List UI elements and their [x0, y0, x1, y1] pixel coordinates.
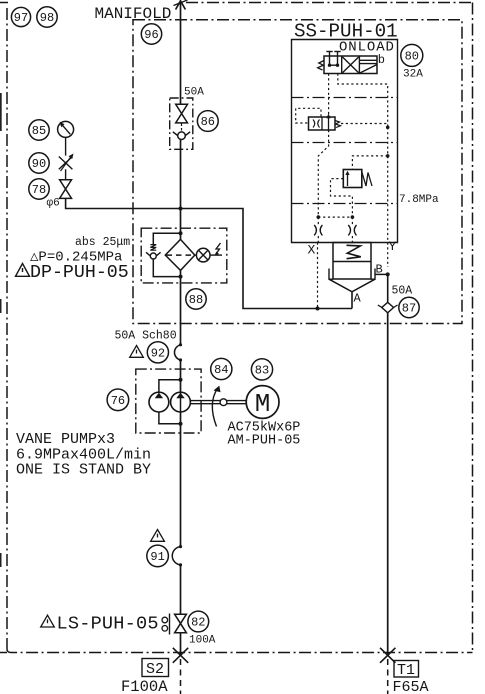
- flexible joint 91: [172, 545, 182, 567]
- valve U80 solenoid b: [359, 60, 377, 73]
- balloon 91: [147, 545, 169, 567]
- pilot relief drain loop: [331, 179, 353, 218]
- svg-text:abs 25μm: abs 25μm: [75, 236, 130, 249]
- valve unit 86 enclosure: [170, 98, 193, 149]
- svg-text:MANIFOLD: MANIFOLD: [95, 5, 172, 23]
- scan edge marks: [0, 93, 2, 567]
- clogging indicator: [195, 243, 222, 262]
- svg-text:82: 82: [191, 616, 205, 630]
- wire: needle valve to valve 78: [65, 169, 67, 180]
- gate valve 82: [175, 614, 187, 633]
- svg-text:97: 97: [14, 11, 28, 25]
- pump 2: [171, 392, 191, 412]
- wire: gauge to needle valve: [65, 137, 67, 155]
- svg-text:98: 98: [40, 11, 54, 25]
- pipe break S2: [173, 648, 188, 663]
- wire: drain line from valve 78 to unloader port A: [66, 198, 352, 308]
- rotation arrow: [212, 386, 220, 427]
- svg-text:φ6: φ6: [47, 198, 60, 210]
- pilot relief spring: [362, 173, 372, 187]
- balloon 87: [399, 297, 419, 317]
- warning triangle 92: [130, 346, 144, 358]
- flexible joint 92: [174, 343, 182, 361]
- wire: S2 stub below: [180, 659, 182, 694]
- balloon 84: [211, 358, 232, 379]
- unloader poppet: [329, 269, 375, 292]
- svg-text:LS-PUH-05: LS-PUH-05: [57, 614, 159, 635]
- svg-text:M: M: [255, 389, 271, 419]
- shaft: [190, 399, 246, 406]
- pilot line from U-mid spring to Y branch: [341, 123, 388, 125]
- gate valve in 86: [176, 104, 188, 123]
- junction dots filter: [179, 231, 183, 278]
- balloon 76: [107, 389, 129, 411]
- junction pilot dots 3: [317, 215, 355, 219]
- label T1: [394, 661, 419, 680]
- motor M: [246, 386, 279, 419]
- unloader main spool spring: [333, 243, 371, 280]
- svg-text:A: A: [354, 292, 362, 306]
- svg-text:86: 86: [201, 115, 215, 129]
- pilot line b (valve to Y branch): [338, 74, 388, 128]
- balloon 78: [29, 179, 49, 199]
- balloon 90: [29, 153, 49, 173]
- svg-text:b: b: [378, 53, 385, 67]
- wire: port B to tank line: [375, 273, 388, 275]
- junction: drain and suction line: [179, 207, 183, 211]
- top arrow (line continues upward): [174, 0, 188, 10]
- junction: X pilot to drain: [316, 307, 320, 311]
- balloon 97: [11, 7, 30, 26]
- balloon 96: [141, 24, 161, 44]
- svg-text:X: X: [308, 243, 316, 258]
- svg-text:AM-PUH-05: AM-PUH-05: [228, 434, 301, 449]
- manifold border: [133, 20, 462, 324]
- svg-text:87: 87: [402, 302, 416, 316]
- warning triangle 91: [151, 530, 165, 542]
- pilot line X below block: [317, 243, 319, 309]
- filter bypass relief valve: [146, 233, 181, 276]
- svg-text:ONLOAD: ONLOAD: [339, 40, 395, 56]
- svg-text:78: 78: [32, 183, 46, 197]
- wire: pump 1 branch bottom: [159, 412, 183, 426]
- pilot loop at valve U-mid: [296, 108, 321, 123]
- wire: tank line lower: [387, 313, 389, 656]
- svg-text:83: 83: [255, 364, 269, 378]
- svg-text:F65A: F65A: [393, 679, 429, 694]
- label DP-PUH-05 with warning triangle: [16, 263, 129, 283]
- orifice X: [314, 217, 322, 242]
- svg-text:96: 96: [144, 28, 158, 42]
- wire: tank line upper: [387, 274, 389, 302]
- svg-text:80: 80: [405, 50, 419, 64]
- pump unit enclosure: [136, 369, 201, 433]
- filter unit enclosure: [141, 228, 227, 283]
- throttle valve 90: [59, 154, 74, 172]
- warning triangle LS: [41, 615, 55, 627]
- svg-text:88: 88: [189, 293, 203, 307]
- svg-text:7.8MPa: 7.8MPa: [399, 194, 439, 206]
- svg-text:T1: T1: [397, 662, 415, 679]
- pilot line Y branch vertical: [387, 127, 389, 242]
- svg-text:100A: 100A: [189, 635, 216, 647]
- svg-text:84: 84: [214, 363, 228, 377]
- pipe break T1: [380, 648, 395, 663]
- balloon 86: [197, 111, 218, 132]
- svg-text:90: 90: [32, 157, 46, 171]
- svg-text:VANE PUMPx3: VANE PUMPx3: [16, 431, 115, 448]
- balloon 98: [37, 7, 57, 27]
- pilot line a (valve to valve B): [328, 74, 330, 117]
- svg-text:DP-PUH-05: DP-PUH-05: [30, 263, 129, 283]
- gate valve 78: [60, 180, 72, 199]
- pilot relief valve body: [343, 170, 362, 188]
- svg-text:85: 85: [32, 124, 46, 138]
- pilot cross link: [318, 216, 352, 218]
- svg-text:50A Sch80: 50A Sch80: [115, 330, 177, 343]
- SS block body: [292, 40, 398, 243]
- pilot line from valve U-mid down: [318, 130, 328, 217]
- check valve 87: [378, 302, 398, 313]
- svg-text:91: 91: [150, 550, 164, 564]
- valve U80 middle cell crossed paths: [343, 57, 359, 73]
- svg-text:92: 92: [151, 347, 165, 361]
- wire: main suction line: [180, 2, 182, 656]
- svg-text:Y: Y: [389, 239, 397, 254]
- junction B: [386, 272, 390, 276]
- pilot line Y below block: [387, 243, 389, 268]
- check valve in 86: [173, 124, 190, 140]
- pump 1: [149, 392, 169, 412]
- pressure gauge: [58, 121, 74, 137]
- filter element: [165, 239, 195, 270]
- junction pilot dot 2: [386, 154, 390, 158]
- svg-text:F100A: F100A: [121, 678, 168, 694]
- valve U80 left cell ports: [326, 52, 340, 67]
- svg-text:S2: S2: [146, 661, 164, 678]
- wire: T1 stub below: [387, 659, 389, 694]
- label S2: [142, 659, 169, 679]
- balloon 83: [251, 359, 272, 380]
- svg-text:50A: 50A: [184, 87, 204, 99]
- valve U80 spring: [318, 61, 324, 71]
- pilot line to relief top: [352, 156, 387, 170]
- svg-text:ONE IS STAND BY: ONE IS STAND BY: [16, 462, 151, 479]
- balloon 92: [147, 342, 168, 363]
- sampling connector: [162, 614, 170, 635]
- solenoid valve U-mid body: [309, 114, 336, 132]
- svg-text:32A: 32A: [403, 69, 423, 81]
- orifice Y: [348, 217, 356, 242]
- valve U-mid spring: [335, 121, 341, 128]
- balloon 88: [186, 289, 206, 309]
- svg-text:76: 76: [111, 394, 125, 408]
- svg-text:50A: 50A: [392, 285, 413, 298]
- wire: pump 1 branch top: [159, 378, 183, 393]
- balloon 82: [188, 611, 209, 632]
- junction pilot dot 1: [386, 126, 390, 130]
- balloon 85: [29, 120, 49, 140]
- balloon 80: [401, 44, 423, 66]
- solenoid valve U80 body: [324, 56, 377, 74]
